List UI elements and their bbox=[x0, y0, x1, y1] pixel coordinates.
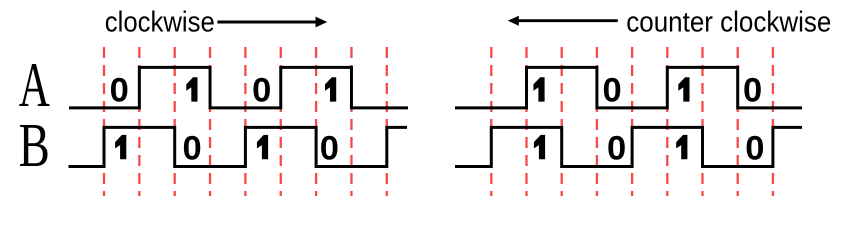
svg-text:B: B bbox=[19, 111, 50, 180]
svg-text:0: 0 bbox=[745, 129, 764, 167]
svg-text:0: 0 bbox=[743, 72, 762, 110]
svg-text:0: 0 bbox=[252, 72, 271, 110]
svg-text:0: 0 bbox=[110, 72, 129, 110]
svg-text:0: 0 bbox=[320, 129, 339, 167]
svg-text:clockwise: clockwise bbox=[105, 6, 215, 38]
svg-text:0: 0 bbox=[603, 72, 622, 110]
svg-text:0: 0 bbox=[183, 129, 202, 167]
svg-text:counter clockwise: counter clockwise bbox=[626, 6, 831, 38]
svg-text:0: 0 bbox=[607, 129, 626, 167]
svg-text:A: A bbox=[19, 49, 51, 121]
